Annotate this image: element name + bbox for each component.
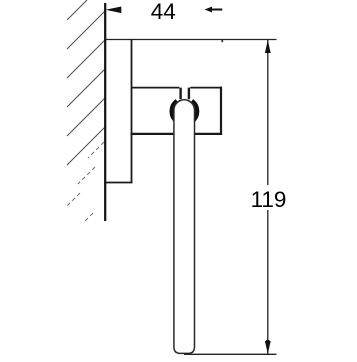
svg-text:44: 44 [151, 0, 176, 24]
svg-text:119: 119 [251, 187, 287, 212]
